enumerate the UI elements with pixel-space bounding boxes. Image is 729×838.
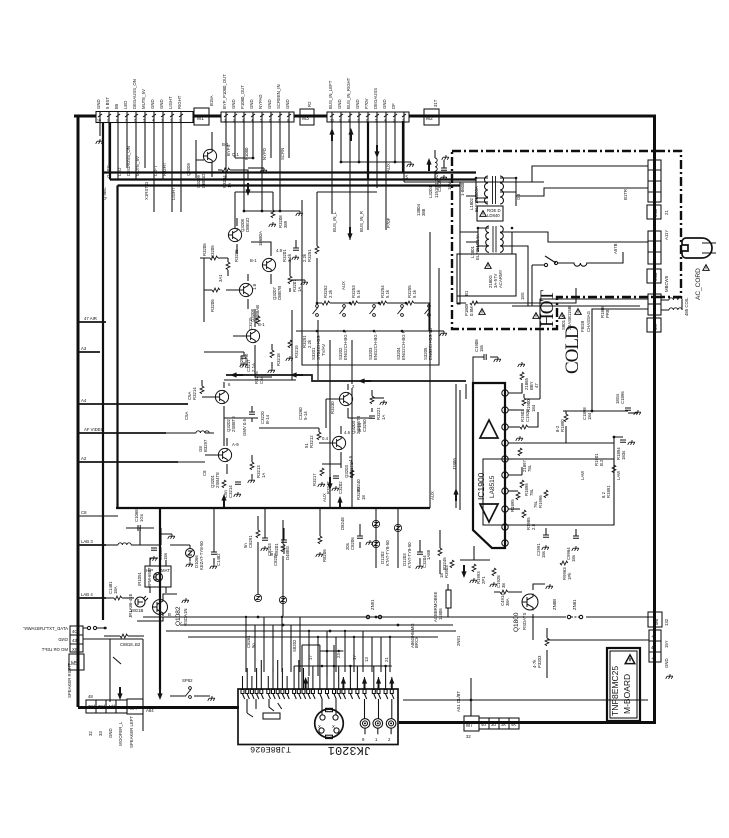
R3206 base resistor	[212, 288, 220, 292]
svg-text:38: 38	[501, 583, 506, 588]
svg-text:TJB8E026: TJB8E026	[250, 744, 291, 754]
svg-text:AUX: AUX	[386, 163, 391, 172]
C3222 cap right of Q3204	[369, 416, 375, 418]
svg-text:D48BG: D48BG	[285, 545, 290, 560]
pin bus wires above jack	[294, 645, 392, 666]
svg-text:B1: B1	[464, 290, 469, 296]
svg-text:18: 18	[361, 495, 366, 500]
svg-text:9: 9	[362, 737, 365, 742]
svg-text:C8: C8	[202, 470, 207, 476]
R1928 resistor	[492, 568, 496, 576]
svg-text:9: 9	[339, 119, 341, 123]
svg-text:1.8: 1.8	[252, 283, 257, 290]
svg-text:4: 4	[384, 119, 386, 123]
base resistor R3214 of Q3202	[200, 386, 204, 394]
svg-text:ATAD_TXT"LRB2AWN": ATAD_TXT"LRB2AWN"	[23, 626, 68, 631]
M11 connector box	[647, 205, 661, 219]
svg-text:LED: LED	[123, 101, 128, 109]
svg-text:15Y: 15Y	[664, 640, 669, 648]
RCA jack left	[360, 719, 370, 729]
M5 connector box (left)	[69, 654, 84, 670]
svg-text:X1RST G: X1RST G	[144, 181, 149, 200]
svg-text:184: 184	[531, 404, 536, 412]
M4 connector box	[127, 699, 143, 714]
svg-text:B-1: B-1	[250, 258, 257, 263]
svg-text:C1896: C1896	[620, 391, 625, 404]
svg-text:A84: A84	[146, 708, 154, 713]
svg-text:C3214: C3214	[228, 485, 233, 498]
svg-text:P70F: P70F	[386, 217, 391, 228]
M3 strip pin labels	[222, 74, 290, 109]
R1896 76k resistor in feedback box	[544, 490, 548, 498]
C3217 cap on A3 line	[204, 352, 244, 356]
transistor Q3208	[228, 228, 241, 242]
J1806 jumper label left of IC	[459, 390, 461, 510]
L1806 safety resistor	[446, 590, 451, 608]
svg-text:R3205: R3205	[202, 243, 207, 256]
amp triangle A	[480, 420, 498, 438]
svg-text:X: X	[332, 724, 335, 729]
svg-text:BYPS: BYPS	[226, 144, 231, 156]
svg-text:32: 32	[88, 731, 93, 736]
M5 right connector box on border	[648, 612, 662, 627]
svg-text:R3218: R3218	[276, 353, 281, 366]
svg-text:38d: 38d	[88, 704, 96, 709]
svg-text:8: 8	[348, 119, 350, 123]
svg-text:R3235: R3235	[234, 249, 239, 262]
svg-text:RSDAYS: RSDAYS	[522, 613, 527, 630]
svg-text:5.1k: 5.1k	[385, 289, 390, 298]
RCA jack mid	[373, 719, 383, 729]
svg-text:Q1082: Q1082	[175, 606, 182, 626]
svg-text:5: 5	[143, 119, 145, 123]
JK3201 pin contacts	[243, 694, 395, 699]
svg-text:20s: 20s	[345, 543, 350, 550]
svg-text:31T: 31T	[433, 99, 438, 107]
svg-text:4d: 4d	[651, 645, 656, 650]
outer board border: bottom right segment	[399, 721, 656, 724]
svg-text:GND: GND	[231, 99, 236, 109]
C3204 cap cluster right of diodes	[417, 552, 423, 554]
svg-text:5n: 5n	[243, 543, 248, 548]
inner AC bus (upper thick rails)	[103, 173, 476, 186]
D1066 rectifier	[170, 545, 190, 549]
svg-text:M3: M3	[302, 116, 309, 122]
emitter network Q3203	[320, 468, 324, 476]
svg-text:SPEAKER LEFT: SPEAKER LEFT	[129, 716, 134, 748]
pin5 resistor R1897	[508, 458, 516, 460]
svg-text:DBB7B: DBB7B	[277, 286, 282, 300]
M9 connector box	[647, 318, 661, 332]
svg-text:A4: A4	[81, 398, 87, 403]
C1903 pin3 RC	[508, 426, 520, 428]
JK3201 jack panel box	[238, 689, 398, 745]
svg-text:6: 6	[366, 119, 368, 123]
svg-text:8.2: 8.2	[601, 491, 606, 498]
svg-text:2: 2	[388, 737, 391, 742]
ground off pin 1 of M1 strip	[96, 139, 103, 144]
switch S3204	[398, 305, 404, 317]
svg-text:DBB1D3: DBB1D3	[201, 171, 206, 188]
svg-text:B5: B5	[114, 103, 119, 109]
svg-text:C3225: C3225	[437, 179, 442, 192]
IC1900 pin 8	[502, 506, 508, 512]
svg-text:SP82: SP82	[182, 678, 193, 683]
main horizontal thick bus y=508	[116, 507, 430, 509]
svg-text:GB: GB	[516, 194, 521, 200]
svg-text:B-14: B-14	[265, 414, 270, 424]
svg-text:DF: DF	[391, 103, 396, 109]
degauss/posistor warning box	[457, 254, 516, 296]
svg-text:C5A: C5A	[184, 412, 189, 420]
svg-text:R1891: R1891	[606, 485, 611, 498]
R3203 resistor to bottom	[547, 628, 649, 640]
svg-text:A-9: A-9	[232, 442, 239, 447]
svg-text:33: 33	[98, 731, 103, 736]
svg-text:C3215: C3215	[248, 317, 253, 330]
extra bus drop wires	[214, 508, 320, 540]
labels under M2 strip	[332, 211, 391, 290]
svg-text:GND: GND	[58, 637, 68, 642]
svg-text:MAT: MAT	[161, 568, 170, 573]
R1809 fusible resistor	[470, 301, 478, 305]
pin7 R1895	[508, 490, 518, 492]
svg-text:MUTE_5V: MUTE_5V	[135, 156, 140, 176]
warning triangle in name box	[625, 655, 635, 664]
switch labels	[311, 328, 433, 360]
C3220 collector cap Q3202	[249, 412, 255, 414]
svg-text:BUS_IN_R: BUS_IN_R	[359, 211, 364, 232]
svg-text:DEGAUSS_ON: DEGAUSS_ON	[132, 79, 137, 109]
extra labels under M3	[226, 144, 285, 160]
M1 strip pin ticks and numbers	[98, 114, 183, 117]
svg-text:WOOFER_L: WOOFER_L	[118, 721, 123, 746]
svg-text:R3245: R3245	[442, 557, 447, 570]
isolation dashed boundary box (HOT area)	[452, 151, 681, 329]
svg-text:Q1800: Q1800	[513, 612, 520, 632]
svg-text:M5: M5	[71, 661, 78, 667]
svg-text:2.2k: 2.2k	[302, 253, 307, 262]
connector strip M2 pins	[327, 112, 409, 122]
M2 strip pin ticks and numbers	[330, 114, 406, 117]
R3204 resistor at Q3209	[222, 168, 230, 172]
wires from IC to right side	[508, 309, 614, 443]
svg-text:2.8: 2.8	[531, 523, 536, 530]
svg-text:2: 2	[402, 119, 404, 123]
M4 labels below	[88, 716, 134, 748]
C1896 cap right	[625, 408, 631, 410]
svg-text:39d: 39d	[98, 704, 106, 709]
svg-text:DEGAUSS_ON: DEGAUSS_ON	[126, 146, 131, 176]
svg-text:SCRN: SCRN	[280, 148, 285, 160]
mains switch S1801	[544, 263, 547, 266]
D1203 detector diode chain	[397, 508, 399, 568]
svg-text:10: 10	[97, 119, 101, 123]
svg-text:R3214: R3214	[192, 387, 197, 400]
transistor Q3201	[218, 448, 231, 462]
svg-text:18G1B: 18G1B	[130, 608, 144, 613]
switch S3202	[340, 305, 346, 317]
svg-text:M1: M1	[197, 116, 204, 122]
svg-text:R3206: R3206	[210, 299, 215, 312]
L3201 choke on AF VIDEO line	[196, 431, 209, 433]
svg-text:1Pk: 1Pk	[567, 572, 572, 580]
svg-text:4-7k: 4-7k	[532, 659, 537, 668]
R1891 resistor	[613, 443, 615, 465]
svg-text:A51 DL/BT: A51 DL/BT	[456, 691, 461, 712]
svg-text:AF VIDEO: AF VIDEO	[84, 427, 105, 432]
jumper ZN91 on wire	[366, 615, 369, 618]
svg-text:LIGHT: LIGHT	[171, 187, 176, 200]
svg-text:GND: GND	[108, 728, 113, 738]
svg-text:ZN81: ZN81	[572, 599, 577, 610]
AC cord plug	[682, 238, 712, 258]
svg-text:1Gs: 1Gs	[139, 514, 144, 522]
svg-text:3: 3	[242, 119, 244, 123]
dashed box interior extra labels	[460, 182, 628, 300]
wires from M5 cells	[83, 628, 143, 731]
svg-text:0.4: 0.4	[322, 436, 329, 441]
svg-text:R3247: R3247	[326, 481, 331, 494]
IC1900 pin 3	[502, 424, 508, 430]
svg-text:18680A: 18680A	[258, 231, 263, 246]
svg-text:C8206: C8206	[350, 537, 355, 550]
svg-text:3A1: 3A1	[218, 274, 223, 282]
svg-text:C8203: C8203	[267, 543, 272, 556]
feed wire with arrow into M4	[157, 687, 162, 700]
right-edge connector strip M11 pins	[648, 160, 661, 202]
svg-text:4: 4	[152, 119, 154, 123]
svg-text:SCREEN_IN: SCREEN_IN	[276, 84, 281, 109]
C3206 cap bottom-left second	[357, 536, 363, 538]
svg-text:132: 132	[664, 618, 669, 626]
R3215 on A3 bus	[256, 316, 260, 324]
svg-text:1: 1	[375, 737, 378, 742]
base resistor R3212 of Q3203	[317, 432, 321, 440]
IC1900 pin 4	[502, 440, 508, 446]
svg-text:NYPAD: NYPAD	[258, 95, 263, 110]
svg-text:78L: 78L	[529, 488, 534, 496]
R1898 resistor to Q1800 base	[500, 590, 508, 594]
svg-text:ACARMY: ACARMY	[498, 269, 503, 288]
svg-text:M7: M7	[466, 723, 473, 729]
svg-text:B3297: B3297	[203, 439, 208, 452]
svg-text:LAW: LAW	[580, 470, 585, 480]
svg-text:ZN8B: ZN8B	[552, 599, 557, 610]
svg-text:23: 23	[336, 653, 341, 658]
svg-text:1-8608: 1-8608	[460, 182, 465, 196]
svg-text:5A: 5A	[404, 175, 409, 180]
jack internal parts	[247, 699, 282, 717]
heavy junction arrows between stages	[230, 372, 243, 377]
M1 connector box	[194, 108, 209, 125]
IC1900 pin 5	[502, 456, 508, 462]
svg-text:GND: GND	[249, 99, 254, 109]
svg-text:X5: X5	[72, 647, 78, 652]
svg-text:R3251: R3251	[307, 249, 312, 262]
svg-text:7: 7	[278, 119, 280, 123]
svg-text:3: 3	[393, 119, 395, 123]
svg-text:38A: 38A	[505, 598, 510, 606]
svg-text:32: 32	[466, 734, 471, 739]
svg-text:JR1A86-41E: JR1A86-41E	[128, 594, 133, 618]
svg-text:AUX: AUX	[341, 281, 346, 290]
svg-text:76L: 76L	[533, 500, 538, 508]
TNP8EMC25 M-BOARD name box	[607, 648, 640, 721]
svg-text:R3212: R3212	[309, 435, 314, 448]
connector strip above M9	[648, 294, 661, 315]
AUX drop wires to main bus	[330, 232, 456, 508]
base network of Q3208	[210, 256, 218, 260]
svg-text:P3203: P3203	[537, 655, 542, 668]
svg-text:485 COIL: 485 COIL	[684, 297, 689, 316]
svg-text:GND: GND	[382, 99, 387, 109]
svg-text:B-1: B-1	[258, 322, 265, 327]
svg-text:LAB 4: LAB 4	[81, 592, 93, 597]
extra rotated labels along M1 drop wires	[106, 165, 176, 200]
S1060 service switch	[186, 687, 192, 699]
svg-text:D8248: D8248	[340, 517, 345, 530]
svg-text:R1996: R1996	[538, 495, 543, 508]
outer board border: right edge	[653, 117, 656, 723]
svg-text:21: 21	[664, 210, 669, 215]
left border tap C8	[78, 515, 118, 517]
svg-text:1: 1	[179, 119, 181, 123]
LED D1010	[135, 596, 148, 607]
IC1900 pin 6	[502, 472, 508, 478]
svg-text:LED: LED	[117, 168, 122, 176]
svg-text:R2: R2	[307, 101, 312, 107]
svg-text:B-14: B-14	[357, 422, 362, 432]
svg-text:+5: +5	[651, 656, 657, 661]
wires under JK to border	[403, 700, 648, 716]
C3225 cap at dashed box left	[441, 168, 447, 170]
svg-text:L3204: L3204	[428, 185, 433, 198]
wires from M9 strip to cold section	[540, 299, 648, 411]
svg-text:GND: GND	[150, 99, 155, 109]
svg-text:GND: GND	[337, 99, 342, 109]
svg-text:Q 5BC: Q 5BC	[106, 165, 111, 178]
svg-text:51: 51	[304, 443, 309, 448]
transformer T1804	[478, 226, 512, 254]
svg-text:C1928: C1928	[525, 409, 530, 422]
svg-text:18A: 18A	[113, 586, 118, 594]
svg-text:4K: 4K	[511, 722, 516, 727]
svg-text:B: B	[168, 612, 171, 617]
svg-text:1A: 1A	[381, 415, 386, 420]
M5 connector cells on left border	[70, 626, 83, 652]
svg-text:ELF25N014A: ELF25N014A	[475, 234, 480, 260]
transistor Q3202	[215, 390, 228, 404]
transistor Q3205	[246, 329, 259, 343]
mid-bottom horizontal harness wires	[143, 617, 456, 637]
svg-text:HIP: HIP	[146, 568, 153, 573]
IC1900 audio amp block outline	[473, 383, 505, 548]
connector strip above M10	[648, 231, 661, 264]
svg-text:DEGAUSS: DEGAUSS	[373, 88, 378, 109]
C1905 cap above IC	[484, 354, 486, 360]
signal arrows below M2 strip	[329, 128, 334, 141]
svg-text:Q 5BC: Q 5BC	[102, 187, 107, 200]
wire labels under M1 strip (rotated)	[102, 146, 167, 200]
switch S3201	[313, 305, 319, 317]
svg-text:GND: GND	[267, 99, 272, 109]
svg-text:P1080: P1080	[244, 147, 249, 160]
left border tap A2	[78, 461, 178, 463]
C3208 / bias parts above Q3208	[235, 192, 273, 228]
svg-text:8: 8	[287, 119, 289, 123]
inner thick rail to switch area	[402, 121, 404, 173]
svg-text:C3250: C3250	[362, 419, 367, 432]
svg-text:6: 6	[134, 119, 136, 123]
svg-text:IC1900: IC1900	[476, 472, 486, 500]
svg-text:R1895: R1895	[510, 499, 515, 512]
left border tap AF VIDEO	[78, 432, 166, 434]
svg-text:4dd: 4dd	[108, 704, 116, 709]
svg-text:KEZAT-TY8-50: KEZAT-TY8-50	[199, 541, 204, 570]
svg-text:13: 13	[364, 657, 369, 662]
svg-text:NYPD: NYPD	[262, 148, 267, 160]
svg-text:M10: M10	[653, 272, 658, 281]
RCA feed wires inside jack panel	[322, 699, 392, 719]
svg-text:RIGHT: RIGHT	[162, 162, 167, 176]
svg-text:M9: M9	[653, 323, 658, 330]
svg-text:Q3209: Q3209	[186, 162, 191, 176]
svg-text:GMV 0.5: GMV 0.5	[242, 418, 247, 436]
right edge pin strip below M6	[649, 630, 661, 662]
svg-text:S8202: S8202	[292, 639, 297, 652]
svg-text:4.6: 4.6	[348, 455, 353, 462]
svg-text:LAB 3: LAB 3	[81, 539, 93, 544]
C1060 electrolytic pair on LAB 3 line	[106, 544, 118, 546]
svg-text:GND: GND	[355, 99, 360, 109]
svg-text:183s: 183s	[621, 451, 626, 460]
transistor Q1062	[152, 598, 168, 616]
svg-text:MBCW8: MBCW8	[664, 275, 669, 292]
R9963 resistor lower	[560, 561, 568, 565]
switch S3203	[370, 305, 376, 317]
IC1900 pin 1	[502, 390, 508, 396]
svg-text:2SB4TE: 2SB4TE	[215, 472, 220, 488]
bold arrows into jack pins	[303, 677, 308, 690]
svg-text:2: 2	[170, 119, 172, 123]
svg-text:18n: 18n	[163, 552, 168, 560]
svg-text:18s: 18s	[479, 345, 484, 352]
svg-text:GND: GND	[664, 658, 669, 668]
svg-text:ENG2CH-BG -: ENG2CH-BG -	[373, 331, 378, 360]
svg-text:2.2k: 2.2k	[307, 339, 312, 348]
svg-text:GND: GND	[285, 99, 290, 109]
svg-text:1: 1	[224, 119, 226, 123]
svg-text:5: 5	[260, 119, 262, 123]
svg-text:C8: C8	[81, 510, 87, 515]
grounds near Q3209	[260, 168, 267, 173]
svg-text:CHASSAG: CHASSAG	[586, 310, 591, 332]
svg-text:10: 10	[330, 119, 334, 123]
svg-text:1 + 2: 1 + 2	[652, 303, 657, 313]
wires inside dashed box	[512, 166, 648, 306]
transistor Q3203	[332, 436, 345, 450]
svg-text:21: 21	[384, 657, 389, 662]
L3204 choke near dashed box	[434, 150, 436, 158]
R3207 emitter resistor Q3207	[288, 276, 292, 284]
junction dots under M2	[340, 161, 343, 164]
svg-text:8: 8	[116, 119, 118, 123]
thick drop from bus to JK area	[159, 508, 161, 690]
svg-text:R3230: R3230	[330, 401, 335, 414]
left border tap A3	[78, 351, 100, 353]
svg-text:2N91: 2N91	[456, 635, 461, 646]
